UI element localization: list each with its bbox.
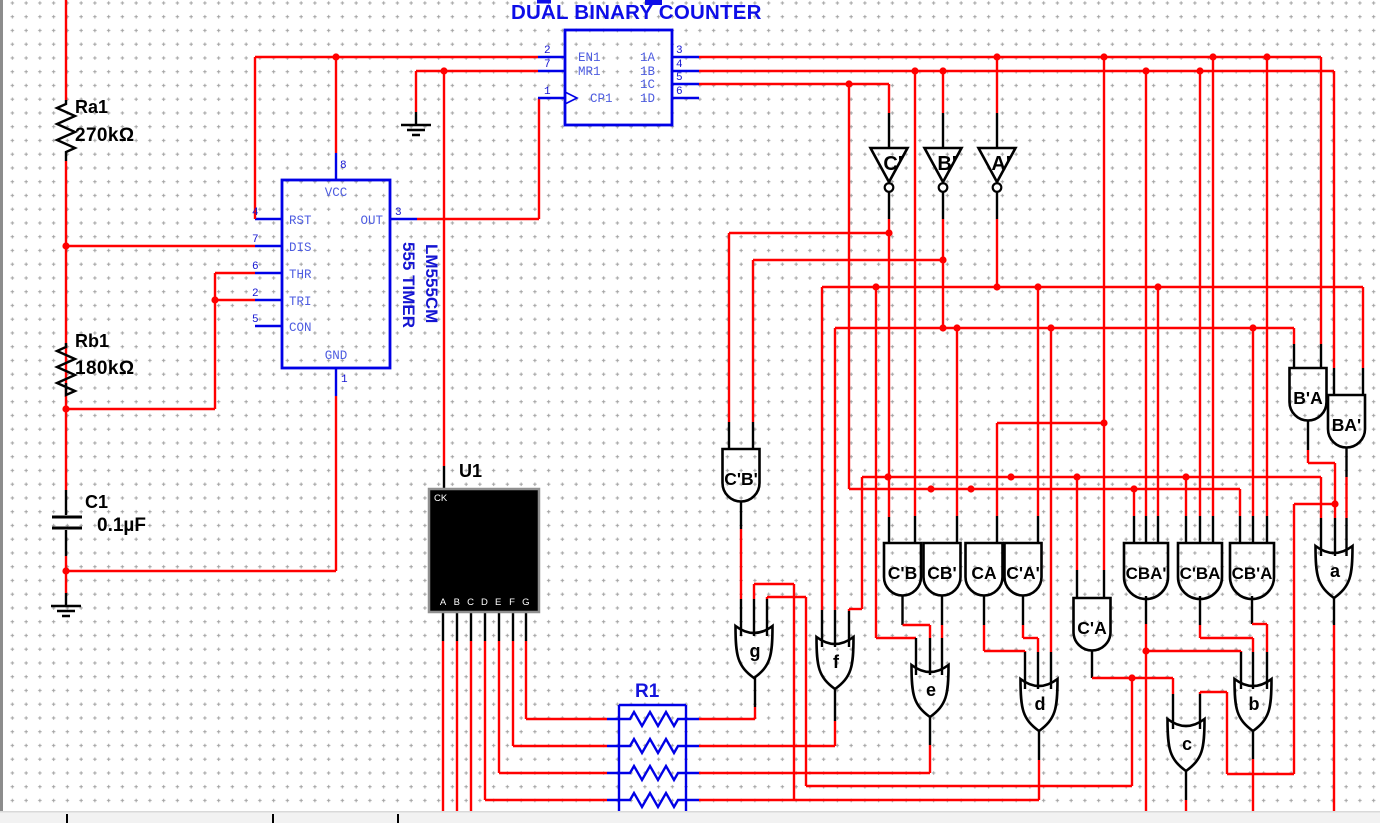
svg-text:1C: 1C — [640, 78, 655, 92]
svg-text:U1: U1 — [459, 461, 482, 481]
svg-text:g: g — [750, 641, 761, 661]
svg-text:3: 3 — [676, 45, 683, 57]
svg-text:CK: CK — [434, 493, 448, 504]
svg-text:CB'A: CB'A — [1232, 564, 1273, 583]
svg-text:2: 2 — [544, 45, 551, 57]
svg-text:1: 1 — [544, 86, 551, 98]
svg-text:B: B — [454, 597, 460, 608]
svg-text:8: 8 — [340, 160, 347, 172]
svg-text:BA': BA' — [1332, 415, 1361, 435]
svg-text:4: 4 — [676, 59, 683, 71]
svg-text:Ra1: Ra1 — [75, 97, 108, 117]
svg-text:6: 6 — [252, 261, 259, 273]
svg-text:CB': CB' — [927, 563, 956, 583]
svg-text:CBA': CBA' — [1126, 564, 1167, 583]
svg-text:7: 7 — [544, 59, 551, 71]
svg-text:2: 2 — [252, 288, 259, 300]
svg-text:180kΩ: 180kΩ — [75, 358, 135, 379]
svg-text:5: 5 — [252, 314, 259, 326]
svg-text:555 TIMER: 555 TIMER — [399, 242, 418, 328]
svg-text:LM555CM: LM555CM — [422, 244, 441, 323]
svg-text:C'A: C'A — [1077, 618, 1107, 638]
svg-text:F: F — [509, 597, 515, 608]
svg-text:CON: CON — [289, 321, 312, 335]
svg-text:Rb1: Rb1 — [75, 331, 109, 351]
svg-text:GND: GND — [325, 349, 348, 363]
svg-text:MR1: MR1 — [578, 65, 601, 79]
svg-text:d: d — [1035, 694, 1046, 714]
svg-text:CP1: CP1 — [590, 92, 613, 106]
svg-text:270kΩ: 270kΩ — [75, 125, 135, 146]
svg-text:C'B': C'B' — [724, 469, 758, 489]
svg-text:1B: 1B — [640, 65, 656, 79]
svg-text:RST: RST — [289, 214, 312, 228]
svg-text:e: e — [926, 680, 936, 700]
svg-text:C1: C1 — [85, 492, 108, 512]
svg-text:4: 4 — [252, 207, 259, 219]
svg-text:VCC: VCC — [325, 186, 348, 200]
svg-text:E: E — [495, 597, 501, 608]
svg-text:A': A' — [991, 153, 1010, 175]
svg-text:OUT: OUT — [360, 214, 383, 228]
svg-text:TRI: TRI — [289, 295, 312, 309]
svg-text:THR: THR — [289, 268, 312, 282]
svg-text:5: 5 — [676, 72, 683, 84]
svg-text:C: C — [467, 597, 474, 608]
svg-text:1D: 1D — [640, 92, 655, 106]
svg-text:a: a — [1330, 561, 1341, 581]
svg-text:c: c — [1182, 734, 1192, 754]
svg-text:G: G — [522, 597, 529, 608]
svg-text:R1: R1 — [635, 681, 660, 702]
svg-text:C'BA: C'BA — [1180, 564, 1221, 583]
svg-text:DIS: DIS — [289, 241, 312, 255]
svg-text:b: b — [1249, 694, 1260, 714]
svg-text:6: 6 — [676, 86, 683, 98]
svg-text:f: f — [833, 652, 840, 672]
svg-text:C'A': C'A' — [1006, 563, 1040, 583]
svg-text:C': C' — [883, 153, 902, 175]
svg-text:1A: 1A — [640, 51, 656, 65]
svg-text:7: 7 — [252, 234, 259, 246]
svg-text:3: 3 — [395, 207, 402, 219]
svg-text:B'A: B'A — [1293, 388, 1323, 408]
svg-text:B': B' — [937, 153, 956, 175]
svg-text:EN1: EN1 — [578, 51, 601, 65]
svg-text:0.1µF: 0.1µF — [97, 515, 146, 536]
svg-text:D: D — [481, 597, 488, 608]
svg-text:A: A — [440, 597, 447, 608]
svg-text:C'B: C'B — [888, 563, 917, 583]
svg-text:CA: CA — [971, 563, 997, 583]
svg-text:DUAL BINARY COUNTER: DUAL BINARY COUNTER — [511, 1, 762, 24]
svg-text:1: 1 — [341, 374, 348, 386]
